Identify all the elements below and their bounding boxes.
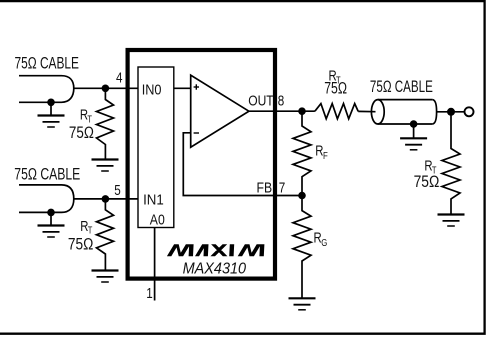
junction dot on cable J2 shield xyxy=(47,209,55,217)
svg-text:75Ω CABLE: 75Ω CABLE xyxy=(15,55,80,73)
node IN1 junction xyxy=(102,195,110,203)
svg-text:75Ω: 75Ω xyxy=(414,172,440,191)
junction dot on cable J1 shield xyxy=(47,99,55,107)
wire RT3 to output cable xyxy=(358,110,375,112)
svg-text:4: 4 xyxy=(116,71,123,87)
node OUT junction xyxy=(298,107,306,115)
svg-text:5: 5 xyxy=(114,183,121,199)
svg-text:F: F xyxy=(323,150,328,162)
mux input block of U1 xyxy=(138,67,174,228)
resistor RT1 (input 0 termination) xyxy=(97,88,114,159)
ground G3 (cable J2 shield) xyxy=(38,212,65,237)
label RF xyxy=(315,144,328,162)
svg-text:A0: A0 xyxy=(150,212,165,229)
svg-text:75Ω: 75Ω xyxy=(68,235,94,254)
svg-text:8: 8 xyxy=(278,94,285,110)
ground G7 (under RT4) xyxy=(438,215,465,227)
wire A0 to pin 1 xyxy=(154,228,156,301)
op-amp plus sign xyxy=(194,84,199,89)
wire cable J3 to output terminal xyxy=(437,111,465,113)
svg-text:75Ω CABLE: 75Ω CABLE xyxy=(370,78,433,96)
resistor RT2 (input 1 termination) xyxy=(97,199,114,271)
svg-text:75Ω: 75Ω xyxy=(69,123,94,142)
svg-text:IN0: IN0 xyxy=(142,81,162,98)
wire mux to op-amp plus input xyxy=(174,87,191,89)
output terminal (open circle) xyxy=(465,107,474,116)
svg-text:1: 1 xyxy=(146,286,153,302)
label RT2 xyxy=(80,219,93,237)
resistor RT3 (series output) xyxy=(315,104,358,119)
resistor RF (feedback) xyxy=(293,111,311,195)
node output junction xyxy=(447,108,455,116)
coax cable J3 (output) xyxy=(371,100,436,124)
resistor RG (gain) xyxy=(293,196,311,299)
node IN0 junction xyxy=(102,85,110,93)
ground G2 (under RT1) xyxy=(92,160,119,172)
label RT4 xyxy=(424,159,437,177)
svg-text:MAX4310: MAX4310 xyxy=(183,261,247,278)
coax cable J1 (input 0) xyxy=(19,76,74,103)
MAXIM logo xyxy=(167,244,265,256)
svg-text:75Ω: 75Ω xyxy=(324,78,347,97)
coax cable J2 (input 1) xyxy=(19,185,74,213)
ground G6 (cable J3 shield) xyxy=(400,124,427,150)
ground G5 (under RG) xyxy=(289,298,316,310)
svg-text:75Ω CABLE: 75Ω CABLE xyxy=(14,165,80,183)
svg-text:IN1: IN1 xyxy=(143,192,164,209)
op-amp U1A triangle xyxy=(191,75,249,147)
label RT3 xyxy=(329,69,342,87)
label RT1 xyxy=(80,108,93,126)
label RG xyxy=(314,231,328,249)
junction dot on cable J3 shield xyxy=(410,120,418,128)
wire IN1 input xyxy=(74,198,138,200)
wire feedback from minus input to FB pin xyxy=(183,133,302,196)
ground G4 (under RT2) xyxy=(92,271,119,283)
svg-text:G: G xyxy=(321,237,327,249)
resistor RT4 (output termination) xyxy=(442,112,460,215)
svg-text:7: 7 xyxy=(279,180,286,196)
ground G1 (cable J1 shield) xyxy=(38,102,65,127)
wire IN0 input xyxy=(74,87,138,89)
op-amp minus sign xyxy=(194,132,199,134)
svg-text:OUT: OUT xyxy=(248,93,274,110)
IC U1 MAX4310 outline xyxy=(128,50,275,279)
node FB junction xyxy=(298,192,306,200)
svg-text:FB: FB xyxy=(257,179,273,196)
wire OUT pin 8 xyxy=(249,110,315,112)
